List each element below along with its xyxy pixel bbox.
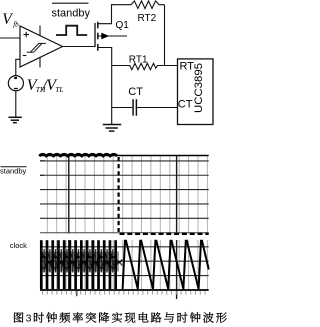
svg-text:RT2: RT2 bbox=[138, 13, 157, 24]
svg-text:clock: clock bbox=[10, 241, 27, 250]
svg-text:V: V bbox=[2, 11, 13, 28]
svg-text:UCC3895: UCC3895 bbox=[193, 63, 205, 113]
svg-text:standby: standby bbox=[52, 8, 91, 20]
svg-text:CT: CT bbox=[128, 86, 143, 98]
svg-text:TL: TL bbox=[55, 85, 63, 94]
svg-text:standby: standby bbox=[0, 167, 27, 176]
svg-text:Q1: Q1 bbox=[116, 20, 130, 31]
svg-text:RT1: RT1 bbox=[129, 55, 148, 66]
svg-text:CT: CT bbox=[178, 98, 193, 110]
svg-text:fb: fb bbox=[13, 20, 19, 28]
svg-text:3: 3 bbox=[26, 313, 32, 325]
